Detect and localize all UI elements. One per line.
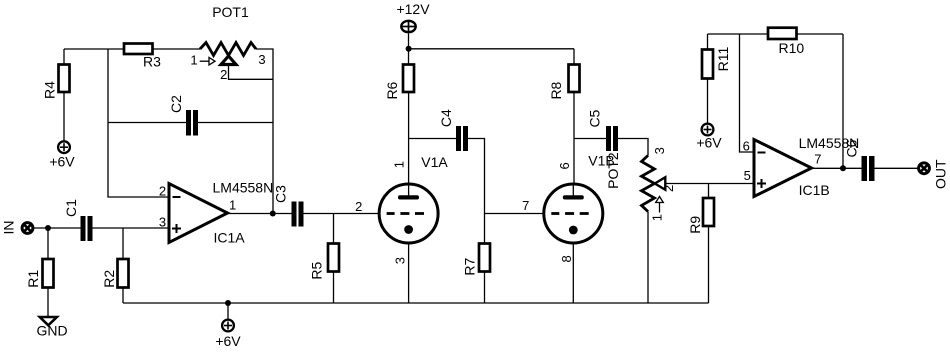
svg-text:1: 1 xyxy=(190,53,197,68)
svg-text:3: 3 xyxy=(258,52,265,67)
resistor R1 xyxy=(25,259,54,288)
resistor R4 xyxy=(59,65,70,93)
wire input to C1 xyxy=(34,227,81,229)
svg-text:R4: R4 xyxy=(42,81,58,99)
wire R2 top xyxy=(122,228,124,259)
power +12V xyxy=(396,1,430,32)
wire +12V rail to R8 xyxy=(409,48,575,50)
potentiometer POT1 xyxy=(190,4,265,82)
wire C3 to V1A grid xyxy=(304,213,381,215)
svg-text:POT2: POT2 xyxy=(605,152,621,189)
svg-text:7: 7 xyxy=(522,198,529,213)
svg-text:+6V: +6V xyxy=(215,333,241,349)
svg-text:C2: C2 xyxy=(168,95,184,113)
wire C5 right to POT2 top xyxy=(618,139,648,156)
svg-text:R11: R11 xyxy=(715,46,731,71)
wire V1A cathode down xyxy=(408,233,410,303)
wire POT1 right end to node xyxy=(256,49,273,214)
junction IC1A output node xyxy=(270,211,276,217)
svg-text:R10: R10 xyxy=(778,40,804,56)
wire pin6 vertical xyxy=(740,34,755,152)
svg-text:3: 3 xyxy=(393,257,408,264)
svg-text:1: 1 xyxy=(229,198,236,213)
wire C2 right xyxy=(198,122,273,124)
svg-text:1: 1 xyxy=(650,214,665,221)
svg-text:3: 3 xyxy=(159,215,166,230)
svg-text:C1: C1 xyxy=(63,199,79,217)
wire R8 bottom to V1B plate xyxy=(573,93,575,196)
wire V1B grid xyxy=(485,213,546,215)
resistor R10 xyxy=(768,28,804,56)
junction +12V node xyxy=(406,46,412,52)
wire POT2 bottom xyxy=(647,212,649,304)
wire bottom rail xyxy=(123,302,709,304)
resistor R6 xyxy=(384,65,414,100)
wire C4 right to R7 node xyxy=(468,139,485,244)
capacitor C2 xyxy=(168,95,198,136)
output terminal OUT xyxy=(919,159,949,189)
svg-text:GND: GND xyxy=(36,323,67,339)
wire C5 left xyxy=(574,138,606,140)
wire R5 tap xyxy=(333,214,335,244)
wire +12V stem to R6 xyxy=(408,34,410,65)
svg-text:C6: C6 xyxy=(844,139,860,157)
svg-text:R5: R5 xyxy=(309,262,325,280)
svg-text:+12V: +12V xyxy=(396,1,430,17)
svg-text:+6V: +6V xyxy=(49,154,75,170)
capacitor C5 xyxy=(587,109,619,151)
wire C4 left xyxy=(409,138,456,140)
wire C6 to OUT xyxy=(875,167,919,169)
capacitor C6 xyxy=(844,139,875,181)
ground GND xyxy=(36,317,67,339)
svg-text:R1: R1 xyxy=(25,270,41,288)
op-amp IC1B xyxy=(743,135,860,198)
power +6V bottom rail xyxy=(215,320,241,349)
wire R4 bottom to +6V xyxy=(63,93,65,142)
wire R9 bottom xyxy=(708,227,710,304)
resistor R11 xyxy=(702,46,731,78)
wire R5 bottom xyxy=(333,272,335,303)
wire IC1B output to C6 xyxy=(811,167,862,169)
svg-text:IC1B: IC1B xyxy=(799,182,830,198)
svg-text:IN: IN xyxy=(1,221,17,235)
wire R6 bottom to V1A plate xyxy=(408,93,410,196)
svg-text:3: 3 xyxy=(652,147,667,154)
svg-text:2: 2 xyxy=(355,199,362,214)
wire POT2 wiper to IC1B pin5 xyxy=(665,183,755,185)
wire R7 bottom xyxy=(484,272,486,303)
capacitor C3 xyxy=(273,185,304,227)
svg-text:R6: R6 xyxy=(384,81,400,99)
resistor R7 xyxy=(462,244,491,276)
svg-text:8: 8 xyxy=(559,255,574,262)
junction IC1B output node xyxy=(840,165,846,171)
svg-text:IC1A: IC1A xyxy=(214,230,246,246)
resistor R2 xyxy=(101,259,129,288)
wire R11 top xyxy=(707,34,709,50)
svg-text:R7: R7 xyxy=(462,258,478,276)
capacitor C4 xyxy=(438,109,468,151)
wire R2 bottom xyxy=(122,288,124,304)
svg-text:R8: R8 xyxy=(548,81,564,99)
svg-text:R2: R2 xyxy=(101,270,117,288)
tube V1B xyxy=(522,153,615,263)
wire R11 bottom to +6V xyxy=(707,79,709,124)
svg-text:POT1: POT1 xyxy=(212,4,249,20)
wire IC1A output to C3 xyxy=(228,213,292,215)
svg-text:6: 6 xyxy=(557,162,572,169)
power +6V IC1B xyxy=(696,124,722,151)
tube V1A xyxy=(355,154,448,264)
junction input node xyxy=(45,225,51,231)
resistor R8 xyxy=(548,65,580,100)
wire R9 tap xyxy=(708,184,710,199)
junction rail +6V node xyxy=(225,300,231,306)
resistor R3 xyxy=(124,44,153,55)
svg-text:R3: R3 xyxy=(143,54,161,70)
svg-text:LM4558N: LM4558N xyxy=(213,180,274,196)
svg-text:C5: C5 xyxy=(587,109,603,127)
wire input node down to R1 xyxy=(47,228,49,259)
svg-text:V1A: V1A xyxy=(421,154,448,170)
wire C2 left xyxy=(108,122,186,124)
input terminal IN xyxy=(1,221,33,235)
svg-text:OUT: OUT xyxy=(933,159,949,189)
svg-text:C3: C3 xyxy=(273,185,289,203)
op-amp IC1A xyxy=(159,180,273,246)
svg-text:2: 2 xyxy=(661,185,676,192)
wire top feedback R10 rail xyxy=(708,33,844,35)
svg-text:5: 5 xyxy=(744,168,751,183)
svg-text:6: 6 xyxy=(743,139,750,154)
svg-text:C4: C4 xyxy=(438,109,454,127)
resistor R9 xyxy=(687,198,714,234)
wire feedback vertical node to pin2 xyxy=(108,49,169,197)
svg-text:R9: R9 xyxy=(687,216,703,234)
capacitor C1 xyxy=(63,199,93,241)
svg-text:+6V: +6V xyxy=(696,134,722,150)
wire R8 top stub xyxy=(573,49,575,64)
svg-text:2: 2 xyxy=(159,184,166,199)
svg-text:1: 1 xyxy=(392,161,407,168)
wire feedback down to output node xyxy=(842,34,844,168)
wire top-left net R4/R3 xyxy=(64,48,200,50)
wire C1 to pin3 xyxy=(93,227,170,229)
power +6V left xyxy=(49,141,75,169)
wire V1B cathode down xyxy=(572,233,574,303)
wire R1 bottom to GND xyxy=(47,288,49,318)
wire R4 top xyxy=(63,49,65,64)
potentiometer POT2 xyxy=(605,147,676,221)
svg-text:7: 7 xyxy=(814,152,821,167)
wire rail +6V stem xyxy=(227,303,229,319)
resistor R5 xyxy=(309,244,340,280)
wire POT1 wiper terminal 2 xyxy=(229,65,274,80)
svg-text:2: 2 xyxy=(220,67,227,82)
